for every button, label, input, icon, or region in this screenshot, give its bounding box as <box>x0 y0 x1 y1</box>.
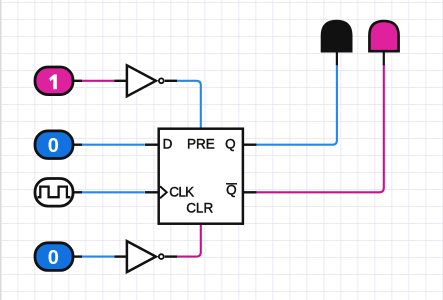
clock input P3 <box>35 179 82 207</box>
wire W5: input 0b to inverter U2 (low, blue) <box>81 256 115 258</box>
svg-text:0: 0 <box>48 135 59 157</box>
svg-text:PRE: PRE <box>187 137 215 152</box>
svg-text:0: 0 <box>48 247 59 269</box>
svg-text:D: D <box>163 137 173 152</box>
canvas left edge <box>0 0 2 300</box>
wire W8: Q-bar output to magenta LED D2 (high, magenta) <box>256 65 384 193</box>
wire W4: clock pin to CLK (low, blue) <box>81 191 145 193</box>
input pin P4 value 0 <box>35 243 82 271</box>
clock edge triangle <box>160 186 167 198</box>
input pin P1 value 1 <box>35 67 82 95</box>
wire W3: input 0 to D (low, blue) <box>81 144 145 146</box>
wire W6: inverter U2 output to CLR (high, magenta) <box>177 224 201 257</box>
inverter U1 <box>115 65 178 96</box>
pin lead CLK <box>145 191 158 193</box>
pin lead Q-bar <box>243 191 256 193</box>
input pin P2 value 0 <box>35 131 82 159</box>
inverter U2 <box>115 241 178 272</box>
wire W2: inverter U1 output to PRE (low, blue) <box>177 81 201 129</box>
wire W7: Q output to black LED D1 (low, blue) <box>256 65 337 145</box>
LED D1 (black, off) <box>322 21 351 65</box>
pin lead D <box>145 143 158 145</box>
svg-text:Q: Q <box>226 182 237 197</box>
wire W1: input 1 to inverter U1 (high, magenta) <box>81 80 115 82</box>
pin lead Q <box>243 143 256 145</box>
svg-text:CLR: CLR <box>186 201 213 216</box>
D flip-flop U3 <box>145 129 256 224</box>
LED D2 (magenta, on) <box>369 21 398 65</box>
svg-text:CLK: CLK <box>169 185 194 200</box>
body <box>159 129 243 224</box>
svg-text:Q: Q <box>225 137 236 152</box>
